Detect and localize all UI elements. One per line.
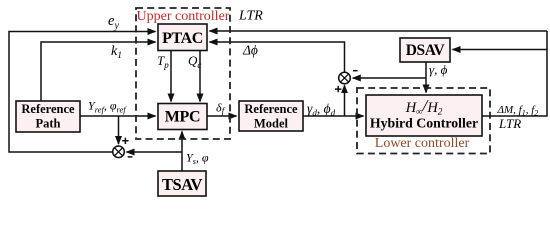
svg-text:Δϕ: Δϕ: [242, 42, 258, 57]
svg-text:Tp: Tp: [157, 53, 169, 70]
svg-text:Upper controller: Upper controller: [137, 9, 230, 24]
svg-text:Reference: Reference: [244, 102, 298, 116]
svg-text:TSAV: TSAV: [162, 175, 202, 194]
svg-text:k1: k1: [111, 44, 122, 61]
svg-text:δf: δf: [216, 101, 226, 117]
svg-text:H∞/H2: H∞/H2: [405, 96, 443, 117]
svg-text:DSAV: DSAV: [406, 42, 446, 59]
svg-text:ey: ey: [108, 13, 119, 32]
svg-text:Yref, φref: Yref, φref: [88, 99, 127, 115]
svg-text:γd, ϕd: γd, ϕd: [307, 101, 336, 118]
svg-text:γ, ϕ: γ, ϕ: [429, 62, 448, 77]
svg-text:Ys, φ: Ys, φ: [186, 151, 209, 167]
svg-text:Model: Model: [254, 117, 289, 131]
svg-text:PTAC: PTAC: [162, 30, 203, 47]
svg-text:Reference: Reference: [21, 102, 75, 116]
svg-text:LTR: LTR: [238, 8, 263, 23]
svg-text:Lower controller: Lower controller: [375, 136, 470, 151]
svg-text:Hybird Controller: Hybird Controller: [370, 116, 478, 131]
svg-text:LTR: LTR: [498, 116, 521, 131]
svg-text:MPC: MPC: [165, 109, 201, 126]
svg-text:Path: Path: [36, 117, 61, 131]
